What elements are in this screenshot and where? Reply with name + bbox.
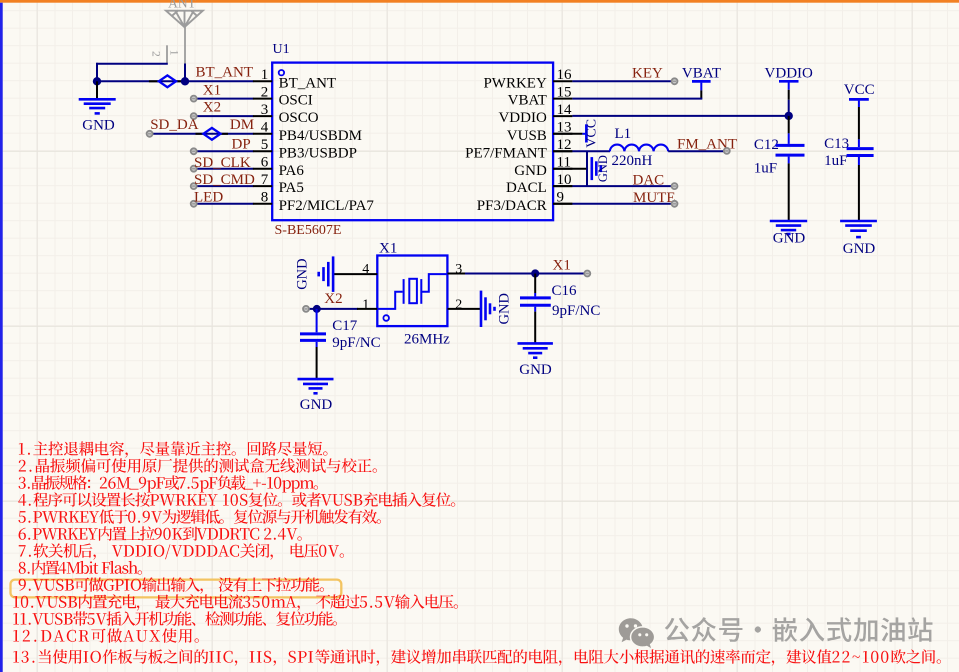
ic U1 pin 2 stub (253, 98, 272, 100)
svg-text:VUSB: VUSB (507, 128, 547, 144)
ic U1 pin 10 stub (553, 185, 572, 187)
wire BT_ANT horizontal to U1 pin 1 (97, 80, 254, 82)
svg-text:1: 1 (362, 297, 369, 312)
svg-text:PWRKEY: PWRKEY (483, 75, 547, 91)
no-connect marker pin 7 wire (191, 183, 197, 189)
note line 10 (red annotation) (13, 594, 458, 610)
ground GND symbol crystal pin 2 (rotated) (480, 291, 483, 327)
wire U1 pin 16 (KEY net) (572, 80, 674, 82)
capacitor C16 symbol (534, 274, 536, 294)
wire C16 to ground (534, 312, 536, 344)
no-connect marker MUTE wire end (672, 201, 678, 207)
svg-text:C13: C13 (824, 136, 849, 152)
wire L1 to FM_ANT (668, 150, 727, 152)
ic U1 pin 16 stub (553, 80, 572, 82)
svg-text:1: 1 (261, 67, 269, 83)
svg-text:GND: GND (514, 163, 547, 179)
svg-text:U1: U1 (273, 42, 290, 57)
wire U1 pin 9 (MUTE net) (553, 203, 572, 205)
ic U1 pin 3 stub (253, 115, 272, 117)
ground GND symbol under C13 (840, 220, 877, 223)
svg-text:C12: C12 (754, 137, 779, 153)
crystal X1 body (377, 256, 447, 327)
svg-text:SD_CMD: SD_CMD (194, 172, 255, 188)
capacitor C17 symbol (316, 309, 318, 332)
note line 2 (red annotation) (19, 458, 377, 473)
antenna ANT1 pin 2 stub (166, 45, 168, 63)
no-connect marker X2 wire end (303, 306, 309, 312)
svg-text:GND: GND (497, 293, 513, 324)
no-connect marker SD_DA wire end (147, 131, 153, 137)
wire U1 pin 11 to GND flag (553, 168, 586, 170)
svg-text:GND: GND (82, 118, 115, 134)
net tie diamond on BT_ANT wire (149, 80, 159, 82)
wire U1 pin 10 (DAC net) (553, 185, 572, 187)
svg-text:DP: DP (232, 136, 251, 152)
ic U1 pin 7 stub (253, 185, 272, 187)
ic U1 pin 6 stub (253, 168, 272, 170)
no-connect marker DAC wire end (672, 183, 678, 189)
no-connect marker X1 wire end (584, 271, 590, 277)
note line 9 (red annotation) (19, 577, 324, 593)
svg-text:2: 2 (261, 84, 269, 100)
note line 12 (red annotation) (13, 628, 198, 642)
junction node BT_ANT at antenna (181, 77, 189, 85)
wire C12 to ground (788, 163, 790, 221)
svg-text:PA5: PA5 (279, 180, 304, 196)
svg-text:15: 15 (557, 84, 572, 100)
svg-text:220nH: 220nH (612, 153, 653, 169)
svg-text:7: 7 (261, 172, 269, 188)
svg-text:PB4/USBDM: PB4/USBDM (279, 128, 362, 144)
ic U1 pin 5 stub (253, 150, 272, 152)
left blue border (0, 3, 3, 672)
capacitor C13 symbol (858, 139, 860, 147)
junction node VDDIO/C12 (785, 112, 793, 120)
svg-text:DM: DM (230, 117, 254, 133)
junction node X2/C17 (313, 305, 321, 313)
svg-text:2: 2 (455, 297, 462, 312)
power flag VDDIO bar (779, 80, 799, 83)
no-connect marker pin 3 wire (191, 113, 197, 119)
wire U1 pin 12 to inductor L1 (553, 150, 572, 152)
crystal X1 pin-1 indicator circle (383, 315, 389, 321)
ic U1 pin 9 stub (553, 203, 572, 205)
note line 1 (red annotation) (19, 441, 328, 457)
ground GND symbol (left) (79, 98, 116, 101)
svg-text:2: 2 (150, 51, 162, 57)
antenna ANT1 feed stem (pin 1) (184, 27, 186, 64)
ic U1 pin 14 stub (553, 115, 572, 117)
note line 8 (red annotation) (19, 560, 142, 574)
no-connect marker KEY wire end (672, 78, 678, 84)
wire vertical pins 12-11-10 (586, 151, 588, 186)
ground GND symbol pin 11 (rotated) (590, 157, 593, 180)
svg-text:VBAT: VBAT (682, 66, 721, 82)
wire VDDIO node down to C12 (788, 116, 790, 133)
ic U1 pin 1 stub (253, 80, 272, 82)
svg-text:C17: C17 (332, 318, 358, 334)
ground GND symbol crystal pin 4 (rotated) (332, 256, 335, 292)
svg-text:X1: X1 (379, 241, 397, 257)
svg-text:GND: GND (773, 230, 806, 246)
svg-text:GND: GND (519, 362, 552, 378)
power flag VBAT bar (692, 80, 711, 83)
wire crystal pin 1 (X2 net) (306, 308, 358, 310)
note line 13 (red annotation) (13, 649, 941, 665)
svg-text:PE7/FMANT: PE7/FMANT (465, 145, 547, 161)
svg-text:PB3/USBDP: PB3/USBDP (279, 145, 357, 161)
svg-text:BT_ANT: BT_ANT (279, 75, 337, 91)
top orange border (0, 0, 959, 3)
note line 5 (red annotation) (18, 509, 381, 524)
svg-text:VCC: VCC (585, 119, 600, 148)
svg-text:26MHz: 26MHz (404, 332, 450, 348)
ic U1 pin 8 stub (253, 203, 272, 205)
power flag VDDIO pin (788, 83, 790, 90)
svg-text:LED: LED (194, 190, 223, 206)
svg-text:ANT: ANT (168, 0, 196, 10)
wire U1 pin 5 (DP net) (194, 150, 254, 152)
svg-text:3: 3 (455, 262, 462, 277)
note line 4 (red annotation) (18, 492, 455, 507)
no-connect marker FM_ANT wire end (724, 148, 730, 154)
wire U1 pin 15 to VBAT (572, 98, 702, 100)
no-connect marker pin 5 wire (191, 148, 197, 154)
svg-text:14: 14 (557, 102, 573, 118)
ic U1 pin 15 stub (553, 98, 572, 100)
svg-text:PA6: PA6 (279, 163, 305, 179)
antenna ANT1 symbol (166, 11, 203, 27)
wire U1 pin 7 (SD_CMD net) (194, 185, 254, 187)
svg-text:X2: X2 (324, 291, 342, 307)
ic U1 pin 11 stub (553, 168, 572, 170)
svg-text:VBAT: VBAT (508, 93, 547, 109)
no-connect marker pin 6 wire (191, 166, 197, 172)
ic U1 pin 4 stub (253, 133, 272, 135)
svg-text:GND: GND (300, 397, 333, 413)
ground GND lead (left) (96, 81, 98, 99)
svg-text:9pF/NC: 9pF/NC (332, 335, 380, 351)
note line 6 (red annotation) (19, 526, 302, 540)
svg-text:VCC: VCC (844, 82, 875, 98)
svg-text:DACL: DACL (506, 180, 547, 196)
wire U1 pin 14 to VDDIO node (572, 115, 788, 117)
svg-text:C16: C16 (552, 283, 578, 299)
svg-text:1uF: 1uF (824, 153, 847, 169)
svg-text:4: 4 (261, 120, 269, 136)
svg-text:PF2/MICL/PA7: PF2/MICL/PA7 (279, 198, 375, 214)
junction node at GND branch (93, 77, 101, 85)
no-connect marker pin 2 wire (191, 96, 197, 102)
junction node X1/C16 (531, 269, 539, 277)
svg-text:SD_CLK: SD_CLK (194, 155, 251, 171)
svg-text:3: 3 (261, 102, 269, 118)
svg-text:8: 8 (261, 190, 269, 206)
power flag VBAT pin (700, 83, 702, 91)
note line 11 (red annotation) (13, 611, 337, 626)
crystal X1 internal symbol (378, 274, 447, 309)
svg-text:6: 6 (261, 155, 269, 171)
svg-text:MUTE: MUTE (633, 190, 676, 206)
wire U1 pin 13 to VCC flag (553, 133, 582, 135)
ic U1 pin 13 stub (553, 133, 572, 135)
svg-text:KEY: KEY (632, 66, 663, 82)
wire U1 pin 2 (X1 net) (194, 98, 254, 100)
net tie diamond on DM wire (196, 133, 204, 135)
ic U1 pin-1 indicator circle (279, 70, 284, 75)
svg-text:X2: X2 (203, 100, 221, 116)
note line 3 (red annotation) (19, 475, 318, 492)
svg-text:GND: GND (843, 241, 876, 257)
wire U1 pin 4 (SD_DA/DM net) (150, 133, 254, 135)
svg-text:VDDIO: VDDIO (498, 110, 546, 126)
svg-text:SD_DA: SD_DA (150, 117, 199, 133)
power flag VCC bar (pin 13, rotated) (585, 124, 588, 142)
svg-text:OSCO: OSCO (279, 110, 319, 126)
svg-text:S-BE5607E: S-BE5607E (275, 223, 342, 238)
watermark wechat icon (619, 618, 654, 650)
svg-text:DAC: DAC (633, 172, 665, 188)
svg-text:1uF: 1uF (754, 161, 777, 177)
svg-text:L1: L1 (615, 126, 632, 142)
svg-text:VDDIO: VDDIO (765, 66, 813, 82)
svg-text:PF3/DACR: PF3/DACR (477, 198, 547, 214)
no-connect marker pin 8 wire (191, 201, 197, 207)
ground GND symbol under C16 (518, 342, 553, 345)
svg-text:1: 1 (168, 50, 180, 56)
wire C17 to ground (316, 347, 318, 379)
svg-text:5: 5 (261, 137, 269, 153)
annotation highlight box around note 9 (11, 580, 342, 598)
wire corner from GND branch to antenna pin 2 (96, 63, 168, 65)
svg-text:9pF/NC: 9pF/NC (552, 303, 600, 319)
wire U1 pin 6 (SD_CLK net) (194, 168, 254, 170)
wire crystal pin 3 (X1 net) (448, 273, 466, 275)
capacitor C12 symbol (788, 133, 790, 144)
wire U1 pin 3 (X2 net) (194, 115, 254, 117)
watermark text 公众号·嵌入式加油站 (665, 617, 933, 642)
svg-text:GND: GND (596, 155, 610, 182)
wire from antenna feed down to BT_ANT node (184, 64, 186, 82)
ic U1 body S-BE5607E (272, 63, 553, 221)
ground GND symbol under C17 (298, 378, 334, 381)
power flag VCC pin (right) (858, 101, 860, 107)
inductor L1 symbol (610, 145, 668, 152)
svg-text:X1: X1 (553, 258, 571, 274)
svg-text:X1: X1 (203, 82, 221, 98)
wire C13 to ground (858, 165, 860, 221)
svg-text:BT_ANT: BT_ANT (196, 64, 254, 80)
svg-text:16: 16 (557, 67, 573, 83)
ic U1 pin 12 stub (553, 150, 572, 152)
power flag VCC bar (right) (849, 98, 869, 101)
ground GND symbol under C12 (770, 220, 807, 223)
wire U1 pin 8 (LED net) (194, 203, 254, 205)
note line 7 (red annotation) (19, 543, 344, 559)
wire crystal pin 4 to GND flag (334, 273, 378, 275)
svg-text:GND: GND (295, 258, 311, 289)
wire crystal pin 2 to GND flag (448, 308, 482, 310)
svg-text:OSCI: OSCI (279, 93, 313, 109)
